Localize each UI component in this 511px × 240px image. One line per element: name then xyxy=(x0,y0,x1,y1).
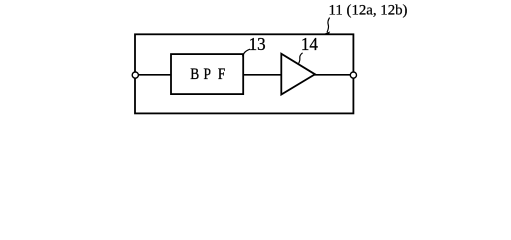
svg-text:13: 13 xyxy=(249,34,266,54)
leader arrowhead for 11 xyxy=(323,31,331,34)
wire: left terminal to BPF input xyxy=(136,74,171,76)
leader line for 14 xyxy=(299,53,303,64)
svg-text:F: F xyxy=(218,66,225,83)
left terminal node xyxy=(132,72,138,78)
band-pass filter BPF 13 xyxy=(171,54,243,94)
svg-text:14: 14 xyxy=(301,34,318,54)
leader line for 13 xyxy=(242,49,250,56)
svg-text:P: P xyxy=(203,66,210,83)
svg-text:B: B xyxy=(190,66,199,83)
enclosure box 11 (12a, 12b) xyxy=(135,34,353,113)
svg-text:11 (12a, 12b): 11 (12a, 12b) xyxy=(329,2,408,18)
wire: amplifier output to right terminal xyxy=(314,74,353,76)
leader line for 11 xyxy=(327,18,330,33)
right terminal node xyxy=(350,72,356,78)
BPF value label xyxy=(190,66,225,83)
amplifier 14 (triangle) xyxy=(281,54,315,95)
wire: BPF output to amplifier input xyxy=(243,74,282,76)
